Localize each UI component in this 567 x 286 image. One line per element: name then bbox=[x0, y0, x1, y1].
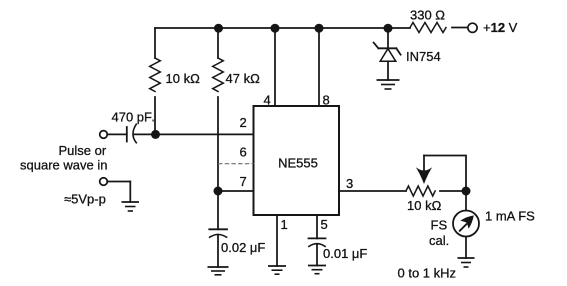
svg-text:8: 8 bbox=[323, 93, 330, 108]
svg-text:FS: FS bbox=[431, 218, 448, 233]
svg-text:1 mA FS: 1 mA FS bbox=[485, 209, 535, 224]
svg-text:+12 V: +12 V bbox=[483, 20, 518, 35]
svg-text:IN754: IN754 bbox=[406, 49, 441, 64]
svg-text:6: 6 bbox=[240, 145, 247, 160]
svg-text:Pulse or: Pulse or bbox=[59, 143, 107, 158]
svg-text:2: 2 bbox=[240, 115, 247, 130]
svg-text:7: 7 bbox=[240, 174, 247, 189]
svg-text:1: 1 bbox=[281, 217, 288, 232]
svg-text:cal.: cal. bbox=[429, 233, 449, 248]
svg-text:0.02 μF: 0.02 μF bbox=[221, 240, 265, 255]
svg-text:330 Ω: 330 Ω bbox=[410, 8, 445, 23]
svg-text:5: 5 bbox=[321, 217, 328, 232]
svg-text:0 to 1 kHz: 0 to 1 kHz bbox=[398, 266, 457, 281]
svg-text:≈5Vp-p: ≈5Vp-p bbox=[64, 192, 106, 207]
svg-text:0.01 μF: 0.01 μF bbox=[323, 246, 367, 261]
svg-text:10 kΩ: 10 kΩ bbox=[407, 198, 442, 213]
svg-text:square wave in: square wave in bbox=[20, 158, 107, 173]
svg-text:4: 4 bbox=[264, 93, 271, 108]
svg-text:470 pF: 470 pF bbox=[112, 110, 153, 125]
svg-text:47 kΩ: 47 kΩ bbox=[226, 71, 261, 86]
svg-text:NE555: NE555 bbox=[278, 156, 318, 171]
svg-text:10 kΩ: 10 kΩ bbox=[166, 71, 201, 86]
svg-text:3: 3 bbox=[346, 176, 353, 191]
